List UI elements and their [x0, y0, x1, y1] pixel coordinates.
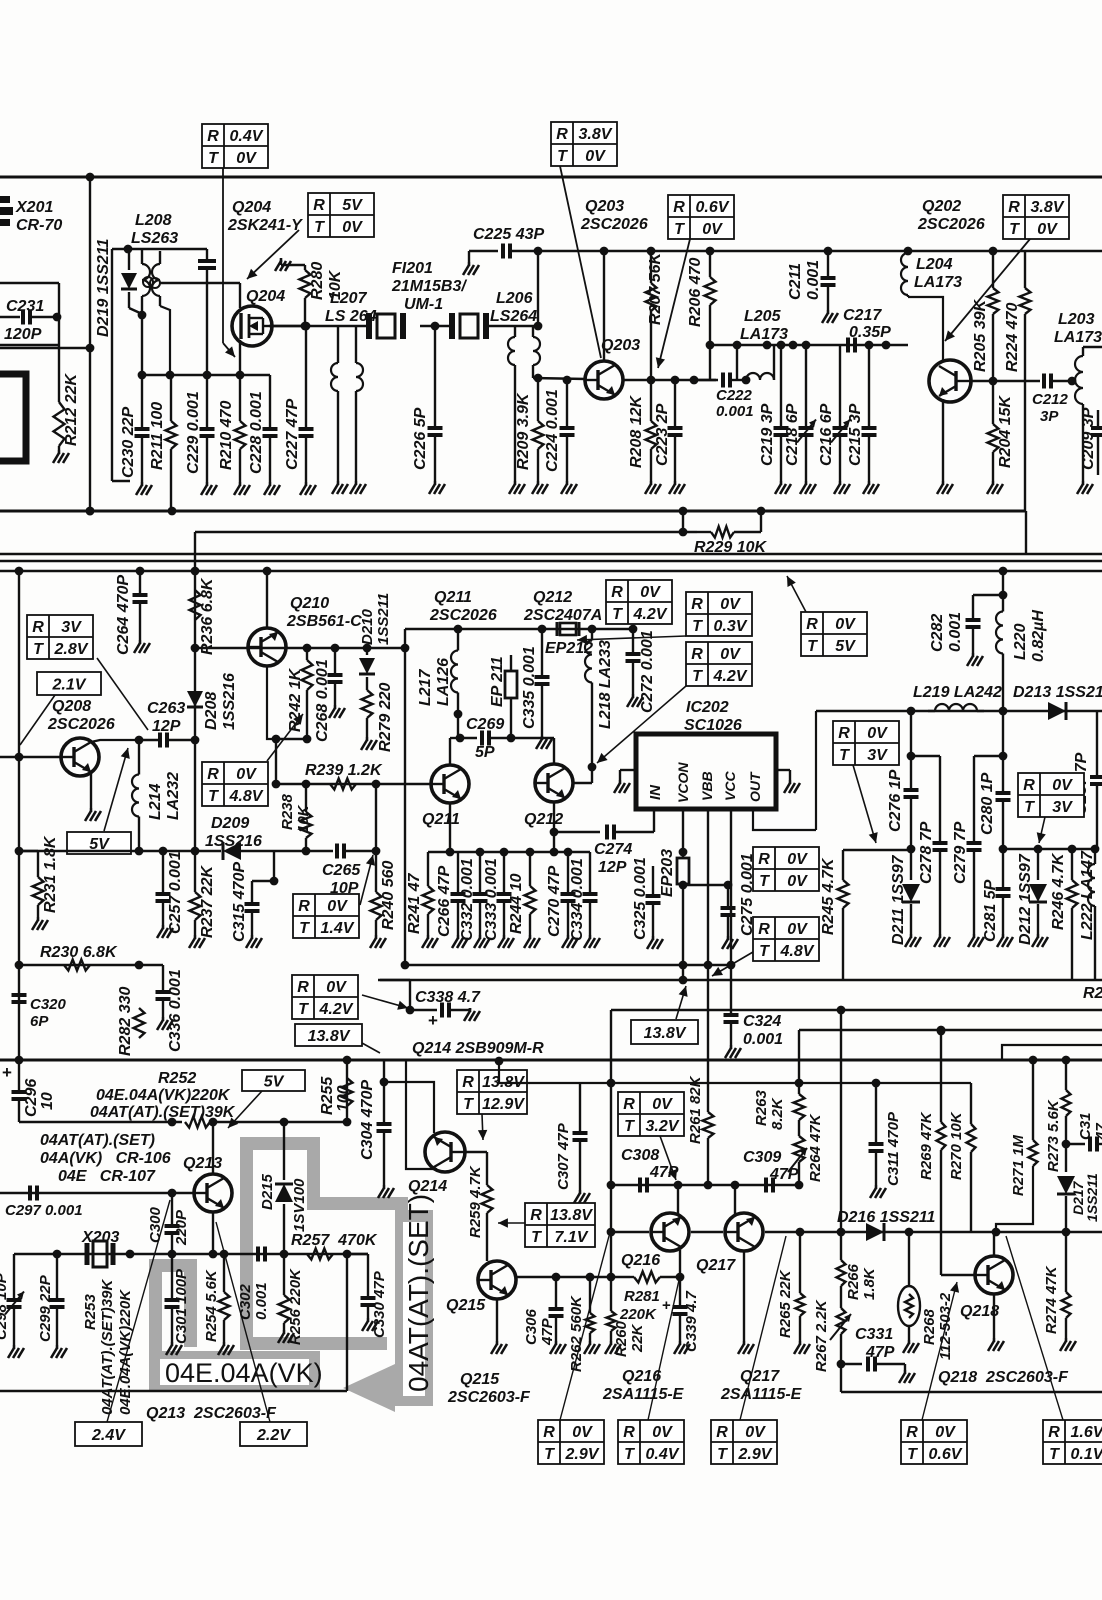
- svg-text:Q213: Q213: [183, 1155, 222, 1172]
- svg-text:1.8K: 1.8K: [861, 1267, 878, 1300]
- wire Q212 collector: [553, 738, 555, 764]
- svg-text:FI201: FI201: [392, 260, 433, 277]
- svg-text:Q216: Q216: [621, 1252, 660, 1269]
- svg-text:120P: 120P: [4, 326, 42, 343]
- ceramic filter FI201 element 1: [369, 313, 403, 339]
- capacitor C287 7P: [1096, 711, 1098, 776]
- svg-text:2SC2407A: 2SC2407A: [523, 607, 602, 624]
- svg-text:04AT(AT).(SET): 04AT(AT).(SET): [40, 1132, 155, 1149]
- svg-text:R266: R266: [845, 1263, 862, 1300]
- svg-text:T: T: [624, 1118, 635, 1135]
- svg-text:R: R: [623, 1096, 635, 1113]
- capacitor C333 0.001: [503, 852, 505, 893]
- svg-text:R230 6.8K: R230 6.8K: [40, 944, 118, 961]
- svg-text:0.001: 0.001: [253, 1282, 270, 1320]
- svg-text:R257 470K: R257 470K: [291, 1232, 378, 1249]
- emitter bypass row y=852: [428, 851, 590, 853]
- capacitor C297 0.001 series on base line: [30, 1186, 37, 1201]
- svg-text:R: R: [1023, 777, 1035, 794]
- svg-text:R205 39K: R205 39K: [972, 299, 989, 372]
- capacitor C230 22P: [141, 375, 143, 428]
- wire VCON line down to rail: [682, 885, 684, 980]
- transistor Q208: [61, 738, 99, 776]
- voltage table R 0V T 2.9V for Q215: [538, 1420, 604, 1464]
- svg-text:47P: 47P: [649, 1164, 679, 1181]
- wire vertical x=90 from bus to ground bus: [89, 177, 91, 511]
- svg-text:C281 5P: C281 5P: [982, 879, 999, 942]
- inductor L203: [1083, 346, 1102, 348]
- svg-text:R208 12K: R208 12K: [628, 395, 645, 468]
- diode D209 1SS216: [223, 842, 241, 860]
- svg-text:C218 6P: C218 6P: [784, 403, 801, 466]
- capacitor C263 series: [160, 733, 167, 748]
- annotation grey label frame 04E.04A(VK): [149, 1351, 320, 1392]
- resistor R266 1.8K: [840, 1232, 842, 1260]
- capacitor C227 47P: [305, 326, 307, 428]
- wire callout 13.8V middle up to rail node: [676, 986, 686, 1019]
- svg-text:R260: R260: [613, 1320, 630, 1357]
- voltage table R 0V T 0.4V for Q216: [618, 1420, 684, 1464]
- capacitor C313 47P to edge: [1066, 1143, 1085, 1145]
- svg-text:EP203: EP203: [659, 849, 676, 897]
- svg-text:8.2K: 8.2K: [769, 1097, 786, 1130]
- resistor R241 47: [427, 852, 429, 886]
- svg-text:X201: X201: [15, 199, 53, 216]
- svg-text:R236 6.8K: R236 6.8K: [199, 577, 216, 655]
- svg-text:D210: D210: [359, 608, 376, 645]
- capacitor C281 5P: [1002, 849, 1004, 888]
- voltage table R 0V T 4.2V lower: [686, 642, 752, 686]
- svg-text:2SA1115-E: 2SA1115-E: [720, 1386, 803, 1403]
- ground L207 legs: [332, 481, 348, 494]
- capacitor C311 470P: [875, 1083, 877, 1143]
- resistor R238 10K: [305, 784, 307, 812]
- voltage table R 13.8V T 7.1V: [525, 1203, 595, 1247]
- svg-text:4.2V: 4.2V: [713, 668, 748, 685]
- svg-text:T: T: [759, 873, 770, 890]
- trimmer capacitor C218 6P: [805, 345, 807, 427]
- capacitor C276 1P: [904, 790, 919, 797]
- capacitor C275 0.001: [727, 885, 729, 907]
- svg-text:C315 470P: C315 470P: [231, 862, 248, 942]
- svg-text:C270 47P: C270 47P: [546, 866, 563, 937]
- resistor R230 6.8K: [64, 960, 90, 971]
- svg-text:R252: R252: [158, 1070, 196, 1087]
- resistor R262 560K: [589, 1277, 591, 1313]
- svg-text:R2: R2: [1083, 985, 1102, 1002]
- trap EP212 series element: [557, 622, 579, 636]
- svg-text:0V: 0V: [585, 148, 606, 165]
- inductor L218 LA233: [591, 629, 593, 641]
- svg-text:04AT(AT).(SET)39K: 04AT(AT).(SET)39K: [99, 1279, 116, 1415]
- svg-text:R253: R253: [82, 1293, 99, 1330]
- trimmer resistor R267 2.2K: [840, 1286, 842, 1308]
- svg-text:C31: C31: [1077, 1112, 1094, 1140]
- diode D212 1SS97: [1037, 849, 1039, 880]
- wire L208 bottom to C230 column: [141, 315, 143, 375]
- ground left of IC202: [620, 769, 636, 771]
- svg-text:Q215: Q215: [446, 1297, 486, 1314]
- wire Q210 collector up to rail: [266, 571, 268, 628]
- svg-text:Q204: Q204: [232, 199, 271, 216]
- wire vertical x=405 left IF: [404, 629, 406, 965]
- wire callout 13.8V left: [362, 1043, 380, 1053]
- resistor R263 8.2K: [794, 1094, 805, 1120]
- wire callout R0V/3.2V down: [660, 1136, 676, 1180]
- wire Q213 emitter: [212, 1212, 214, 1254]
- svg-text:1SS216: 1SS216: [221, 673, 238, 730]
- capacitor C339 4.7: [679, 1277, 681, 1306]
- svg-text:C219 3P: C219 3P: [759, 403, 776, 466]
- svg-text:C278 7P: C278 7P: [918, 821, 935, 884]
- capacitor C306 47P: [555, 1277, 557, 1308]
- voltage table R 1.6V T 0.1V for D217: [1043, 1420, 1102, 1464]
- svg-text:R254 5.6K: R254 5.6K: [203, 1269, 220, 1342]
- resistor R254 5.6K: [223, 1254, 225, 1292]
- svg-text:4.2V: 4.2V: [319, 1001, 354, 1018]
- wire L208 secondary bottom to row: [160, 306, 170, 375]
- wire VCON pin down with EP203: [682, 809, 684, 858]
- svg-text:R: R: [1048, 1424, 1060, 1441]
- resistor R259 4.7K: [486, 1152, 488, 1185]
- wire supply rail y=571 full width: [0, 570, 1102, 573]
- svg-text:4.2V: 4.2V: [633, 606, 668, 623]
- svg-text:0.6V: 0.6V: [929, 1446, 963, 1463]
- wire callout up to D217 node: [1006, 1236, 1063, 1420]
- svg-text:T: T: [624, 1446, 635, 1463]
- svg-text:04A(VK) CR-106: 04A(VK) CR-106: [40, 1150, 171, 1167]
- svg-text:L219 LA242: L219 LA242: [913, 684, 1002, 701]
- svg-text:R: R: [530, 1207, 542, 1224]
- capacitor C299 22P: [56, 1254, 58, 1299]
- wire det output row y=711: [816, 710, 1102, 712]
- svg-text:C311 470P: C311 470P: [885, 1111, 902, 1186]
- voltage table R 0V T 2.9V for Q217: [711, 1420, 777, 1464]
- resistor R206 470: [709, 251, 711, 277]
- svg-text:220K: 220K: [619, 1306, 657, 1323]
- voltage table R 0V T 0V: [753, 847, 819, 891]
- voltage box 2.2V: [240, 1422, 307, 1446]
- transistor Q212: [535, 764, 573, 802]
- svg-text:C225 43P: C225 43P: [473, 226, 544, 243]
- svg-text:4.8V: 4.8V: [229, 788, 264, 805]
- svg-text:2SC2603-F: 2SC2603-F: [447, 1389, 531, 1406]
- svg-text:T: T: [759, 943, 770, 960]
- wire R263 column from y=1030 rail: [798, 1030, 800, 1094]
- wire Q210 base: [195, 647, 248, 649]
- resistor R246 4.7K: [1071, 849, 1073, 880]
- resistor R204 15K: [992, 381, 994, 424]
- svg-text:R231 1.8K: R231 1.8K: [42, 835, 59, 913]
- wire AF return bus y=1391: [0, 1390, 347, 1392]
- svg-text:T: T: [1024, 799, 1035, 816]
- svg-text:D216 1SS211: D216 1SS211: [837, 1209, 936, 1226]
- wire R267 down to AF return: [840, 1364, 842, 1392]
- capacitor C229 0.001: [206, 375, 208, 428]
- svg-text:R: R: [313, 197, 325, 214]
- resistor R224 470: [1024, 251, 1026, 288]
- svg-text:4.8V: 4.8V: [780, 943, 815, 960]
- svg-text:0V: 0V: [702, 221, 723, 238]
- voltage table R 0V T 3V left: [833, 721, 899, 765]
- svg-text:0V: 0V: [787, 921, 808, 938]
- svg-text:100: 100: [335, 1085, 352, 1112]
- svg-text:VCC: VCC: [722, 771, 738, 801]
- capacitor C332 0.001: [479, 852, 481, 893]
- capacitor C264 470P: [139, 571, 141, 594]
- svg-text:T: T: [544, 1446, 555, 1463]
- svg-text:0V: 0V: [745, 1424, 766, 1441]
- resistor R207 56K: [650, 251, 652, 283]
- svg-text:C336 0.001: C336 0.001: [167, 969, 184, 1052]
- svg-text:D215: D215: [259, 1173, 276, 1210]
- capacitor C215 3P: [868, 345, 870, 427]
- svg-text:IC202: IC202: [686, 699, 729, 716]
- svg-text:C212: C212: [1032, 391, 1069, 408]
- svg-text:R212 22K: R212 22K: [63, 373, 80, 446]
- capacitor C269 5P: [457, 714, 459, 738]
- capacitor C225 43P branch: [537, 251, 539, 326]
- wire callout 2.4V to Q213 base: [107, 1200, 170, 1422]
- capacitor C211: [827, 251, 829, 277]
- svg-text:D219 1SS211: D219 1SS211: [95, 238, 112, 337]
- svg-text:L217: L217: [417, 668, 434, 706]
- capacitor C270 47P: [567, 852, 569, 893]
- wire detector row to diode D209: [195, 850, 221, 852]
- svg-text:R211 100: R211 100: [149, 402, 166, 470]
- svg-text:R268: R268: [921, 1308, 938, 1345]
- resistor R273 5.6K: [1065, 1060, 1067, 1090]
- inductor L205: [746, 373, 774, 380]
- svg-text:T: T: [208, 788, 219, 805]
- svg-text:C215 3P: C215 3P: [847, 403, 864, 466]
- wire from top band down at x=683: [682, 511, 684, 532]
- svg-text:L206: L206: [496, 290, 533, 307]
- capacitor C226 5P: [434, 326, 436, 427]
- svg-text:C306: C306: [523, 1308, 540, 1345]
- resistor R244 10: [529, 852, 531, 886]
- svg-text:T: T: [557, 148, 568, 165]
- resistor R269 47K: [940, 1031, 942, 1122]
- crystal X201 symbol at left edge: [0, 196, 13, 226]
- capacitor C336 0.001: [162, 965, 164, 991]
- svg-text:LA173: LA173: [740, 326, 788, 343]
- svg-text:T: T: [299, 920, 310, 937]
- svg-text:C231: C231: [6, 298, 44, 315]
- svg-text:0V: 0V: [327, 898, 348, 915]
- wire Q214 collector loop: [406, 1060, 437, 1169]
- svg-text:47P: 47P: [769, 1166, 799, 1183]
- svg-text:C282: C282: [929, 614, 946, 652]
- capacitor C274 12P to IC input: [554, 831, 600, 833]
- wire Q202 base to divider node: [971, 380, 1040, 382]
- thermistor R268 112-503-2: [908, 1282, 910, 1286]
- svg-text:3V: 3V: [1052, 799, 1073, 816]
- wire between Q216 and Q217: [691, 1231, 723, 1233]
- svg-text:2SK241-Y: 2SK241-Y: [227, 217, 303, 234]
- annotation grey band right of C301: [184, 1259, 197, 1347]
- wire Q213 collector: [212, 1122, 214, 1174]
- wire x=276 from R242 node: [275, 739, 277, 784]
- svg-text:VCON: VCON: [675, 762, 691, 803]
- svg-text:R261 82K: R261 82K: [687, 1075, 704, 1144]
- resistor R282 330: [134, 1008, 145, 1038]
- svg-text:R: R: [207, 766, 219, 783]
- wire VBB pin down: [707, 809, 709, 965]
- svg-text:2.8V: 2.8V: [54, 641, 89, 658]
- wire Q211 emitter: [449, 803, 451, 852]
- resistor R236 6.8K on x=195: [190, 590, 201, 620]
- wire VCC pin down: [730, 809, 732, 873]
- svg-text:2.1V: 2.1V: [52, 677, 87, 694]
- svg-text:04E.04A(VK)220K: 04E.04A(VK)220K: [96, 1087, 231, 1104]
- svg-text:T: T: [314, 219, 325, 236]
- inductor L214 LA232: [138, 740, 140, 775]
- trap EP203: [677, 858, 689, 884]
- resistor R229 10K on AGC line: [195, 531, 697, 533]
- svg-text:5V: 5V: [835, 638, 856, 655]
- wire left leg down from row: [815, 711, 817, 830]
- svg-text:C226 5P: C226 5P: [412, 407, 429, 470]
- svg-text:Q212: Q212: [533, 589, 572, 606]
- svg-text:IN: IN: [647, 784, 664, 800]
- svg-text:LA126: LA126: [435, 658, 452, 706]
- resistor R205 39K: [992, 251, 994, 288]
- svg-text:47: 47: [1093, 1123, 1102, 1141]
- wire Q208 emitter to ground: [90, 772, 92, 808]
- svg-text:0V: 0V: [236, 766, 257, 783]
- svg-text:220P: 220P: [173, 1209, 190, 1246]
- wire x=195 down to detector line: [194, 740, 196, 851]
- wire feedback rail y=1083: [499, 1061, 971, 1083]
- voltage table R 0V T 4.2V at C338: [292, 975, 358, 1019]
- wire AF node row y=1254: [14, 1253, 368, 1255]
- svg-text:R282 330: R282 330: [117, 987, 134, 1056]
- svg-text:EP 211: EP 211: [489, 656, 506, 707]
- resistor R209 3.9K: [537, 378, 539, 421]
- svg-text:T: T: [692, 618, 703, 635]
- svg-text:C228 0.001: C228 0.001: [248, 391, 265, 474]
- svg-text:X203: X203: [81, 1229, 119, 1246]
- svg-text:R: R: [462, 1074, 474, 1091]
- svg-text:UM-1: UM-1: [404, 296, 443, 313]
- svg-text:0V: 0V: [572, 1424, 593, 1441]
- capacitor on L208 secondary top: [206, 249, 208, 260]
- svg-text:Q214: Q214: [408, 1178, 447, 1195]
- svg-text:Q202: Q202: [922, 198, 961, 215]
- svg-text:04E.04A(VK): 04E.04A(VK): [165, 1358, 323, 1388]
- wire Q211 base row R239: [276, 783, 431, 785]
- svg-text:R: R: [32, 619, 44, 636]
- wire R245 row y=850: [843, 849, 911, 851]
- svg-text:3.8V: 3.8V: [1031, 199, 1065, 216]
- voltage table R 0.4V T 0V for Q204: [202, 124, 268, 168]
- resistor R256 220K: [283, 1254, 285, 1295]
- svg-text:0V: 0V: [640, 584, 661, 601]
- svg-text:T: T: [298, 1001, 309, 1018]
- inductor L220 0.82uH: [1002, 571, 1004, 610]
- wire switch row y=1232: [611, 1231, 649, 1233]
- svg-text:2SA1115-E: 2SA1115-E: [602, 1386, 685, 1403]
- svg-text:R: R: [691, 646, 703, 663]
- svg-text:C266 47P: C266 47P: [436, 866, 453, 937]
- wire callout R0V/4.2V to Q212 base node: [597, 686, 686, 763]
- diode D216: [866, 1223, 884, 1241]
- wire shield separator double line: [0, 553, 1102, 556]
- svg-text:R229 10K: R229 10K: [694, 539, 767, 556]
- diode D208 1SS216: [194, 648, 196, 740]
- svg-text:21M15B3/: 21M15B3/: [391, 278, 467, 295]
- svg-text:Q212: Q212: [524, 811, 563, 828]
- svg-text:R: R: [758, 921, 770, 938]
- svg-text:R246 4.7K: R246 4.7K: [1050, 852, 1067, 930]
- inductor L217 LA126: [457, 629, 459, 651]
- svg-text:Q203: Q203: [601, 337, 640, 354]
- capacitor C272 0.001: [632, 629, 634, 653]
- wire callout R0V/1.4V to C265: [360, 855, 373, 905]
- svg-text:L222 LA147: L222 LA147: [1079, 850, 1096, 940]
- svg-text:Q211: Q211: [434, 589, 472, 606]
- svg-text:0.82µH: 0.82µH: [1030, 610, 1047, 662]
- wire callout 2.2V to Q213 emitter: [216, 1222, 270, 1422]
- svg-text:0V: 0V: [867, 725, 888, 742]
- svg-text:R241 47: R241 47: [406, 872, 423, 934]
- svg-text:T: T: [1009, 221, 1020, 238]
- svg-text:C257 0.001: C257 0.001: [167, 851, 184, 934]
- svg-text:C309: C309: [743, 1149, 781, 1166]
- capacitor C338 4.7 polarized: [406, 1006, 415, 1015]
- transistor Q215: [478, 1261, 516, 1299]
- svg-text:12P: 12P: [152, 718, 181, 735]
- capacitor C302 0.001 series: [258, 1247, 265, 1262]
- svg-text:LA173: LA173: [914, 274, 962, 291]
- wire x=195 vertical from AGC to detector row: [194, 532, 196, 648]
- capacitor C308 47P series: [640, 1178, 647, 1193]
- trimmer capacitor C298 10P: [13, 1254, 15, 1299]
- svg-text:2.9V: 2.9V: [738, 1446, 773, 1463]
- svg-text:47P: 47P: [865, 1344, 895, 1361]
- svg-text:0V: 0V: [326, 979, 347, 996]
- svg-text:10: 10: [39, 1092, 56, 1110]
- capacitor C224 0.001: [566, 380, 568, 427]
- svg-text:SC1026: SC1026: [684, 717, 742, 734]
- svg-text:1SS211: 1SS211: [1084, 1173, 1100, 1222]
- node top band bus junctions: [168, 507, 177, 516]
- annotation grey maze bottom band: [240, 1337, 387, 1350]
- svg-text:T: T: [907, 1446, 918, 1463]
- wire D212 row: [1003, 848, 1095, 850]
- wire x=611 divider line from y=1010: [610, 1010, 612, 1277]
- wire bias node row y=648: [248, 647, 405, 649]
- wire callout R0V/4.8V up: [267, 714, 303, 761]
- svg-text:47P: 47P: [539, 1317, 556, 1346]
- wire x=347 down to return bus: [346, 1254, 348, 1391]
- svg-text:R242 1K: R242 1K: [287, 667, 304, 732]
- svg-text:C333 0.001: C333 0.001: [483, 858, 500, 941]
- svg-text:R240 560: R240 560: [380, 861, 397, 930]
- svg-text:0V: 0V: [1052, 777, 1073, 794]
- wire callout R0V/0.3V to EP212: [577, 636, 686, 640]
- svg-text:CR-70: CR-70: [16, 217, 62, 234]
- svg-text:C299 22P: C299 22P: [37, 1274, 54, 1342]
- transistor Q214: [425, 1132, 465, 1172]
- capacitor C334 0.001: [589, 852, 591, 893]
- annotation grey arrow head: [343, 1364, 395, 1412]
- svg-text:R: R: [716, 1424, 728, 1441]
- svg-text:LA232: LA232: [165, 772, 182, 820]
- wire Q214 base to right: [465, 1151, 487, 1153]
- svg-text:L214: L214: [147, 783, 164, 820]
